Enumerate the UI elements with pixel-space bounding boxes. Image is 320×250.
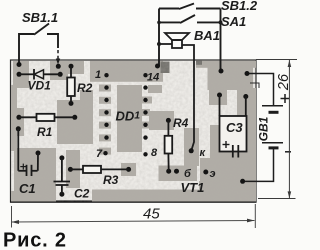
capacitor C2: [54, 158, 71, 194]
copper DD1 central block: [117, 85, 142, 152]
svg-text:R1: R1: [37, 125, 53, 139]
copper collector strip: [184, 128, 199, 166]
wire battery bottom: [243, 148, 274, 182]
svg-text:45: 45: [143, 206, 160, 223]
svg-text:VD1: VD1: [28, 79, 52, 93]
switch SB1.1: [19, 24, 58, 65]
copper bottom right region: [199, 181, 256, 202]
svg-text:7: 7: [96, 148, 103, 160]
wire left vertical to speaker: [158, 9, 160, 67]
speaker BA1: [159, 33, 194, 151]
svg-text:R3: R3: [103, 173, 119, 187]
C1 plus: [20, 164, 26, 170]
wire right vertical to board: [220, 9, 222, 72]
junction dot SA1: [219, 20, 223, 24]
copper base bar: [159, 166, 198, 182]
svg-text:C3: C3: [226, 120, 243, 135]
DD1 pads right column: [143, 73, 147, 157]
svg-text:SB1.2: SB1.2: [221, 0, 258, 13]
copper dark square B: [196, 61, 202, 65]
svg-text:GB1: GB1: [257, 116, 271, 141]
copper foil regions: [11, 61, 256, 202]
copper bottom strip mid: [92, 190, 199, 202]
svg-text:э: э: [210, 168, 216, 180]
component pads: [16, 62, 250, 197]
copper top-left block: [13, 61, 29, 88]
battery minus sign: [285, 151, 291, 153]
copper block speaker pads: [208, 63, 254, 90]
board stipple texture: [11, 61, 256, 202]
wire battery top: [247, 74, 274, 106]
arrow to board pad: [56, 59, 60, 65]
copper dark square A: [161, 62, 170, 74]
copper central-left mass: [57, 100, 93, 144]
diode VD1: [19, 69, 60, 80]
resistor R3: [70, 168, 83, 170]
svg-text:26: 26: [276, 73, 292, 91]
copper DD1 right nubs: [142, 97, 152, 104]
resistor R4: [167, 120, 169, 135]
wire dashed SB1.1 right: [57, 50, 59, 59]
switch SB1.2: [159, 4, 221, 10]
resistor R2: [70, 66, 72, 77]
svg-text:14: 14: [147, 72, 159, 84]
resistor R1: [19, 116, 37, 118]
svg-text:8: 8: [151, 147, 158, 159]
battery plus sign: [281, 94, 290, 103]
white notch bracket: [250, 83, 259, 88]
C3 plus: [223, 141, 230, 148]
C3 plates: [233, 145, 239, 158]
copper top strip right: [196, 61, 256, 68]
dimension 26: [256, 60, 297, 199]
DD1 pads left column: [103, 73, 108, 155]
svg-text:R4: R4: [173, 116, 189, 130]
copper C1 block: [14, 148, 56, 201]
copper emitter patch: [200, 158, 235, 181]
junction dot speaker: [157, 42, 161, 46]
copper R4 top patch: [149, 111, 174, 130]
C3 leads from pads: [219, 95, 221, 116]
svg-text:C1: C1: [19, 181, 36, 196]
svg-text:DD1: DD1: [116, 109, 141, 124]
switch SA1: [159, 15, 221, 23]
copper C3 left lower: [210, 125, 219, 165]
svg-text:1: 1: [95, 69, 101, 81]
junction dot SA1 left: [157, 21, 161, 25]
svg-text:VT1: VT1: [181, 180, 205, 195]
svg-text:SB1.1: SB1.1: [22, 10, 58, 25]
capacitor C3 box: [220, 116, 247, 152]
copper right column: [241, 88, 256, 202]
copper bottom strip left: [11, 191, 56, 202]
svg-text:Рис. 2: Рис. 2: [3, 230, 67, 250]
copper top block mid: [50, 61, 84, 74]
copper DD1 right patch row2: [148, 85, 162, 93]
copper C2 right block: [66, 150, 80, 188]
battery GB1 plates: [262, 106, 283, 148]
svg-text:BA1: BA1: [194, 28, 220, 43]
copper under C3: [219, 152, 241, 182]
copper left edge strip: [11, 85, 17, 151]
board bottom edge: [10, 200, 257, 202]
capacitor C1: [18, 129, 38, 176]
svg-text:SA1: SA1: [221, 14, 246, 29]
board PCB substrate: [11, 60, 257, 202]
copper DD1 top strip: [90, 61, 163, 82]
copper R3 right patch: [121, 163, 136, 176]
svg-text:R2: R2: [77, 81, 93, 95]
copper R1 left nub: [11, 108, 24, 136]
dimension 45: [12, 204, 256, 228]
copper DD1 left nubs: [99, 85, 111, 92]
svg-text:C2: C2: [74, 187, 90, 201]
svg-text:б: б: [184, 168, 192, 180]
